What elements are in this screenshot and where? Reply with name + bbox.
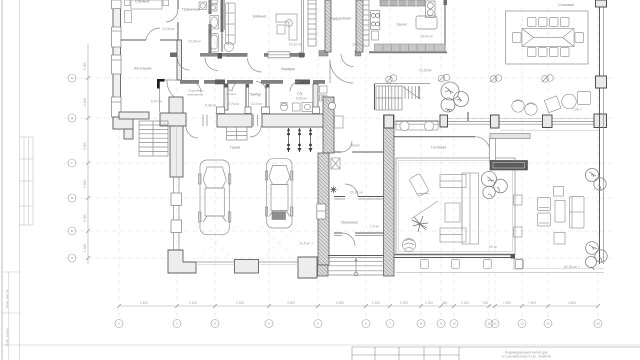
svg-text:2 300: 2 300 — [461, 301, 469, 305]
svg-text:10,08 м²: 10,08 м² — [162, 27, 176, 31]
svg-text:✓: ✓ — [428, 69, 431, 73]
living south wall — [394, 254, 515, 259]
bed top-left cut — [125, 0, 169, 22]
svg-text:11: 11 — [487, 322, 490, 326]
svg-text:2 100: 2 100 — [400, 301, 408, 305]
svg-text:12: 12 — [493, 322, 497, 326]
svg-text:Прихожая: Прихожая — [341, 221, 358, 225]
bath sink oval — [210, 16, 219, 30]
hall cabinet — [335, 116, 344, 128]
car 2 — [265, 159, 293, 228]
svg-text:3,10 м²: 3,10 м² — [251, 102, 263, 106]
laundry washer — [199, 2, 207, 10]
svg-text:2,76 м²: 2,76 м² — [228, 102, 240, 106]
terrace edge bottom — [396, 269, 604, 273]
svg-text:18,44 м²: 18,44 м² — [420, 35, 434, 39]
living sofa U — [440, 173, 479, 244]
wardrobe walls hatched — [325, 0, 363, 52]
svg-text:в Сосновом Бору по ул. Хвойной: в Сосновом Бору по ул. Хвойной — [502, 355, 551, 359]
svg-text:10: 10 — [452, 322, 456, 326]
svg-text:900: 900 — [483, 301, 489, 305]
svg-text:5,08 м²: 5,08 м² — [205, 104, 217, 108]
svg-text:7,9 м²: 7,9 м² — [370, 225, 380, 229]
svg-text:3 800: 3 800 — [568, 301, 576, 305]
entry radiator — [331, 158, 340, 169]
svg-text:5,82 м²: 5,82 м² — [296, 97, 308, 101]
kitchen stove — [371, 11, 380, 40]
kitchen sink — [426, 1, 436, 18]
entry partition 1 — [334, 184, 384, 199]
terrace round table — [562, 94, 577, 109]
office west wall stub — [224, 0, 226, 30]
hall big door arc — [330, 60, 353, 83]
south wall of north rooms — [170, 0, 447, 59]
svg-text:62,56 м² ✓: 62,56 м² ✓ — [564, 265, 581, 269]
terrace chairs round — [512, 100, 537, 115]
svg-text:Холл: Холл — [351, 144, 359, 148]
tree east 2 — [585, 242, 607, 270]
svg-text:23,67 м²: 23,67 м² — [289, 43, 303, 47]
living armchair — [409, 173, 429, 198]
living palm scribble — [412, 216, 428, 232]
svg-text:Тамбур: Тамбур — [249, 93, 261, 97]
svg-text:1 400: 1 400 — [83, 98, 87, 106]
svg-text:1 400: 1 400 — [140, 301, 148, 305]
living coffee table — [445, 203, 460, 222]
office round table — [224, 42, 233, 51]
wardrobe shelving ladder right — [363, 0, 369, 46]
living room floor border — [396, 158, 515, 254]
row grid dashed lines horizontal — [64, 78, 612, 258]
svg-text:7 400: 7 400 — [528, 301, 536, 305]
terrace pier row — [384, 112, 607, 128]
living north wall — [394, 130, 599, 160]
left dimension line and bubbles — [68, 44, 90, 264]
entry top wall — [334, 141, 384, 152]
room 6.47 partition — [160, 80, 178, 112]
tree east 1 — [585, 168, 606, 190]
wall laundry/bath — [209, 0, 212, 56]
bath tub — [210, 34, 219, 53]
column grid dashed lines vertical — [119, 8, 598, 319]
dining end chairs — [513, 33, 584, 43]
svg-text:6,47 м²: 6,47 м² — [151, 100, 163, 104]
boiler room east wall — [167, 40, 182, 113]
section arrows electro — [287, 128, 313, 152]
garage door swing X right — [260, 226, 297, 260]
porch steps — [328, 256, 384, 277]
area labels — [151, 27, 582, 269]
axis bubble pairs mid — [386, 74, 554, 83]
entry partition 2 — [334, 233, 384, 246]
svg-text:2 300: 2 300 — [83, 214, 87, 222]
svg-text:13: 13 — [520, 322, 524, 326]
partition bedroom/laundry — [166, 0, 178, 40]
svg-text:7,08 ✓: 7,08 ✓ — [572, 108, 582, 112]
svg-text:готовоч.: готовоч. — [226, 92, 237, 96]
office desk — [276, 14, 297, 40]
svg-text:1 500: 1 500 — [372, 301, 380, 305]
terrace west columns — [514, 195, 523, 269]
terrace lounge set — [538, 187, 585, 245]
main stair treads — [376, 86, 420, 110]
hall column circle — [328, 102, 335, 109]
svg-text:14: 14 — [546, 322, 550, 326]
living rug edge line — [411, 201, 438, 219]
kitchen counter top — [380, 0, 425, 6]
svg-text:С/у: С/у — [297, 92, 303, 96]
svg-text:Столовая: Столовая — [558, 3, 574, 7]
svg-text:Взам. инв. №: Взам. инв. № — [5, 289, 9, 308]
svg-text:Д: Д — [71, 116, 73, 120]
svg-text:3 300: 3 300 — [336, 301, 344, 305]
title block — [352, 347, 640, 360]
corridor door arcs — [178, 54, 354, 138]
dining pavilion outline — [506, 11, 588, 64]
west wall corner block — [113, 117, 133, 139]
svg-text:3 900: 3 900 — [287, 301, 295, 305]
east colonnade wall — [596, 0, 607, 264]
dining chairs bottom — [528, 48, 570, 57]
svg-text:5 300: 5 300 — [83, 62, 87, 70]
living plant pot — [403, 239, 416, 252]
bottom dimension line — [117, 301, 600, 308]
svg-text:помещение: помещение — [187, 93, 203, 97]
bath washer — [210, 0, 218, 11]
svg-text:Котельная: Котельная — [134, 67, 151, 71]
section mark corner black — [157, 79, 165, 89]
svg-text:Б: Б — [71, 229, 73, 233]
dining check — [428, 69, 431, 73]
car 1 — [199, 160, 231, 235]
svg-text:Е: Е — [71, 76, 73, 80]
svg-text:10,5 м² ✓: 10,5 м² ✓ — [299, 242, 314, 246]
svg-text:Подп. и дата: Подп. и дата — [5, 328, 9, 346]
tree cluster living east — [481, 171, 507, 198]
garage west wall — [169, 97, 183, 250]
south colonnade columns — [421, 260, 524, 269]
svg-text:3 300: 3 300 — [83, 180, 87, 188]
entry block east wall — [384, 115, 395, 276]
svg-text:В: В — [71, 196, 73, 200]
garage east wall — [317, 97, 334, 276]
svg-text:10,16 м²: 10,16 м² — [352, 43, 366, 47]
svg-text:Гараж: Гараж — [230, 146, 241, 150]
partition bedroom south — [121, 28, 179, 40]
wc fixtures east — [320, 86, 328, 101]
svg-text:1 500: 1 500 — [503, 301, 511, 305]
dining table — [522, 29, 574, 47]
svg-text:Кабинет: Кабинет — [253, 15, 267, 19]
svg-text:1 900: 1 900 — [83, 244, 87, 252]
svg-text:15: 15 — [596, 322, 600, 326]
office couch — [226, 3, 236, 44]
svg-text:Гостиная: Гостиная — [431, 146, 446, 150]
svg-text:А: А — [71, 256, 73, 260]
fireplace dark — [490, 161, 528, 171]
basement stair — [139, 121, 168, 156]
wardrobe shelving ladder left — [308, 0, 316, 46]
room labels — [134, 0, 574, 224]
kitchen counter south — [375, 44, 446, 52]
svg-text:3 900: 3 900 — [83, 142, 87, 150]
bench with stools — [396, 121, 438, 131]
svg-text:1 200: 1 200 — [425, 301, 433, 305]
svg-text:3 300: 3 300 — [236, 301, 244, 305]
entry star — [331, 187, 337, 194]
terrace tilted square — [544, 96, 561, 113]
hall stair walls — [375, 84, 431, 111]
terrace square ne — [578, 92, 591, 105]
garage step hatch — [227, 127, 248, 140]
garage north wall — [160, 113, 328, 127]
boiler south wall — [119, 112, 149, 119]
dining chairs top — [528, 18, 570, 27]
west exterior wall — [112, 0, 122, 129]
svg-text:Коридор: Коридор — [281, 67, 295, 71]
utility partitions — [217, 84, 320, 114]
utility bath fixtures — [280, 103, 312, 112]
tree cluster hall — [441, 82, 469, 112]
svg-text:Спальня: Спальня — [135, 0, 149, 4]
svg-text:20,81 м²: 20,81 м² — [350, 191, 364, 195]
kitchen island — [416, 16, 437, 29]
svg-text:10,09 м²: 10,09 м² — [188, 40, 202, 44]
bottom grid bubbles — [115, 320, 602, 328]
garage door swing X left — [197, 226, 234, 260]
corridor south wall — [180, 80, 325, 85]
svg-text:2 400: 2 400 — [189, 301, 197, 305]
svg-text:Кухня: Кухня — [397, 23, 407, 27]
svg-text:60 м²: 60 м² — [489, 245, 498, 249]
svg-text:Прачечная: Прачечная — [182, 8, 200, 12]
garage south wall — [168, 250, 317, 278]
svg-text:400: 400 — [442, 301, 448, 305]
svg-text:Гардеробная: Гардеробная — [329, 17, 351, 21]
wall bath/office — [221, 0, 224, 52]
